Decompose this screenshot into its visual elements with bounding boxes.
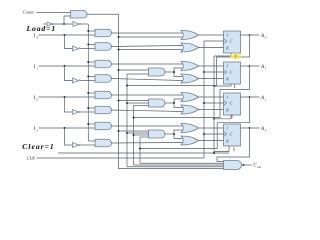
wire A2 feedback descent (140, 97, 250, 149)
junction chain bracket stage1 (173, 71, 175, 73)
wire inverter out stage3 (80, 144, 95, 146)
svg-text:0: 0 (36, 35, 38, 39)
wire count-enable vertical (119, 14, 224, 168)
node I3 input label (33, 127, 39, 133)
wire A2 to chain3 (140, 136, 149, 138)
svg-text:J: J (226, 64, 228, 69)
svg-text:out: out (257, 165, 261, 169)
wire I1 line (39, 65, 96, 67)
wire A0 to chain2 (127, 102, 149, 104)
AND gate carry (C_out) (224, 161, 242, 170)
wire CLK to FF3 C (204, 133, 224, 135)
junction Load tap stage2 (87, 107, 89, 109)
junction A0 chain2 (126, 102, 128, 104)
OR gate J stage2 (181, 93, 199, 102)
wire I0 to inverter (65, 35, 73, 49)
OR gate K stage1 (181, 74, 199, 83)
wire CLK line (37, 157, 205, 159)
wire chain bracket stage1 (174, 68, 183, 77)
wire A1 feedback descent (134, 66, 250, 118)
junction I3 branch (64, 127, 66, 129)
svg-text:J: J (226, 95, 228, 100)
svg-text:Load=1: Load=1 (26, 24, 57, 33)
wire CE feed chain2 (119, 100, 149, 102)
AND gate K-load stage0 (95, 43, 112, 51)
wire Load tap stage2 (88, 92, 95, 94)
junction A3 output (249, 127, 251, 129)
wire A0 to chain3 (127, 132, 149, 134)
wire OR-J out stage2 (199, 96, 224, 98)
wire A1 to carry AND (134, 164, 224, 166)
svg-text:2: 2 (265, 97, 267, 101)
wire CE feed chain1 (119, 69, 149, 71)
svg-text:3: 3 (36, 128, 38, 132)
AND gate G1 (Count enable) (71, 11, 88, 19)
wire A1 output (241, 65, 260, 67)
junction A2 feedback (139, 148, 141, 150)
AND gate J-load stage3 (95, 122, 112, 130)
junction I1 branch (64, 65, 66, 67)
wire Load distribution vertical (87, 24, 89, 141)
node I1 input label (33, 65, 39, 71)
inverter U6 (I3') (73, 143, 81, 148)
svg-text:1: 1 (265, 66, 267, 70)
wire CLK to FF1 C (204, 71, 224, 73)
red mark under FF2 (231, 115, 233, 119)
wire Clear stub FF1 (214, 84, 231, 86)
inverter U1 (Load) (47, 22, 53, 26)
wire Load tap stage3 (88, 123, 95, 125)
svg-text:3: 3 (265, 128, 267, 132)
svg-text:K: K (225, 107, 229, 112)
junction A2 output (249, 96, 251, 98)
wire inverter out stage1 (80, 80, 95, 82)
OR gate J stage3 (181, 124, 199, 133)
junction Load tap stage1 (87, 76, 89, 78)
wire C_out (242, 164, 252, 166)
AND gate chain stage2 (149, 99, 166, 107)
wire J-AND out stage2 (112, 94, 183, 96)
svg-text:J: J (226, 33, 228, 38)
wire G1 output to CE vertical (87, 13, 119, 15)
svg-text:0: 0 (265, 35, 267, 39)
junction Load tap stage2 (87, 92, 89, 94)
OR gate K stage2 (181, 105, 199, 114)
wire CE feed chain3 (119, 130, 149, 132)
node Clear=1 label (22, 142, 54, 151)
wire I3 to inverter (65, 128, 73, 145)
AND gate chain stage3 (149, 130, 166, 138)
wire between inverters (53, 23, 73, 25)
junction I0 branch (64, 34, 66, 36)
junction Load tap stage1 (87, 61, 89, 63)
node I0 input label (33, 34, 39, 40)
junction I2 branch (64, 96, 66, 98)
AND gate K-load stage2 (95, 106, 112, 114)
wire OR-J out stage1 (199, 65, 224, 67)
junction CE J0 (118, 36, 120, 38)
wire Load tap stage2 (88, 107, 95, 109)
wire OR-K out stage2 (199, 109, 224, 111)
AND gate chain stage1 (149, 68, 166, 76)
inverter U3 (I0') (73, 46, 81, 51)
svg-text:I: I (33, 96, 36, 101)
wire K-AND out stage0 (112, 46, 183, 47)
wire Clear line (58, 152, 229, 154)
OR gate J stage0 (181, 31, 199, 40)
wire Clear stub FF0 (214, 53, 231, 56)
wire Load tap stage1 (88, 76, 95, 78)
wire CLK to FF0 C (204, 41, 224, 158)
wire Load tap stage0 (88, 44, 95, 46)
svg-text:K: K (225, 76, 229, 81)
svg-text:K: K (225, 138, 229, 143)
wire chain out stage2 (165, 102, 174, 104)
svg-text:C: C (230, 39, 233, 44)
inverter U5 (I2') (73, 110, 81, 115)
junction A0 output (249, 34, 251, 36)
wire K-AND out stage3 (112, 142, 183, 145)
wire chain bracket stage2 (174, 99, 183, 108)
node C_out label (253, 164, 261, 169)
AND gate J-load stage1 (95, 60, 112, 68)
wire Clear stub FF3 (214, 146, 229, 152)
AND gate K-load stage3 (95, 139, 112, 147)
junction A1 chain3 (133, 134, 135, 136)
wire inverter out stage2 (80, 111, 95, 113)
wire I3 line (39, 127, 96, 129)
inverter U4 (I1') (73, 78, 81, 83)
wire A1 feedback left vertical (133, 106, 135, 166)
wire I2 line (39, 96, 96, 98)
node A3 output label (260, 127, 267, 133)
wire A3 feedback (217, 128, 250, 162)
junction A0 chain3 (126, 132, 128, 134)
red mark under FF1 (234, 85, 236, 89)
svg-text:C: C (230, 70, 233, 75)
junction CE K0 (118, 49, 120, 51)
wire chain bracket stage3 (174, 130, 183, 139)
wire K-AND out stage2 (112, 110, 183, 112)
OR gate J stage1 (181, 62, 199, 71)
svg-text:1: 1 (36, 66, 38, 70)
svg-text:CLK: CLK (27, 156, 36, 161)
wire Clear stub FF2 (214, 115, 231, 119)
JK flip-flop U8 (FF1) (224, 62, 241, 84)
wire G1 lower input (64, 16, 71, 24)
svg-text:I: I (33, 34, 36, 39)
node CLK label (27, 156, 36, 161)
wire A0 feedback descent (127, 35, 250, 86)
AND gate J-load stage0 (95, 29, 112, 37)
junction carry output (243, 164, 245, 166)
svg-text:2: 2 (36, 97, 38, 101)
wire U2 output to load vertical (81, 23, 89, 25)
node A1 output label (260, 65, 267, 71)
junction CE chain1 (118, 69, 120, 71)
junction CLK FF1 (203, 71, 205, 73)
wire I1 to inverter (65, 66, 73, 81)
junction Clear stub FF2 (213, 118, 215, 120)
wire OR-K out stage0 (199, 47, 224, 49)
wire A1 to chain3 (134, 134, 149, 136)
svg-text:Count: Count (23, 10, 35, 15)
junction Load tap stage3 (87, 123, 89, 125)
inverter U2 (Load) (73, 22, 81, 27)
wire I0 line (39, 34, 96, 36)
junction chain bracket stage3 (173, 133, 175, 135)
wire A2 output (241, 96, 260, 98)
wire A0 to chain1 (127, 73, 149, 75)
junction Clear vertical bottom (213, 152, 215, 154)
junction Load tap stage0 (87, 44, 89, 46)
node A0 output label (260, 34, 267, 40)
junction CLK FF3 (203, 133, 205, 135)
wire Load tap stage1 (88, 61, 95, 63)
wire CE feed K0 (119, 49, 183, 51)
wire Count to G1 (37, 12, 71, 14)
svg-text:I: I (33, 65, 36, 70)
wire I2 to inverter (65, 97, 73, 112)
OR gate K stage0 (181, 43, 199, 52)
node A2 output label (260, 96, 267, 102)
wire CLK to FF2 C (204, 102, 224, 104)
JK flip-flop U9 (FF2) (224, 93, 241, 115)
svg-text:C: C (230, 101, 233, 106)
wire OR-K out stage1 (199, 78, 224, 80)
svg-text:K: K (225, 45, 229, 50)
node I2 input label (33, 96, 39, 102)
svg-text:I: I (33, 127, 36, 132)
node Count input (23, 10, 35, 15)
wire A0 feedback left vertical (126, 74, 128, 167)
wire OR-J out stage0 (199, 34, 224, 36)
junction CE chain3 (118, 130, 120, 132)
wire Load tap stage3 (88, 140, 95, 142)
wire A2 feedback left vertical (139, 137, 141, 163)
OR gate K stage3 (181, 136, 199, 145)
wire J-AND out stage3 (112, 125, 183, 127)
junction A1 output (249, 65, 251, 67)
wire A2 to carry AND (140, 162, 224, 164)
node Load=1 label (26, 24, 57, 33)
junction A0 feedback (126, 85, 128, 87)
svg-text:C: C (230, 132, 233, 137)
wire Load input (43, 23, 47, 25)
wire OR-K out stage3 (199, 140, 224, 142)
wire inverter out stage0 (80, 48, 95, 50)
red mark under FF3 (233, 148, 235, 152)
junction Clear stub FF1 (213, 85, 215, 87)
wire J-AND out stage0 (112, 32, 183, 34)
wire Clear vertical (213, 56, 215, 153)
wire Load tap stage0 (88, 30, 95, 32)
wire A1 to chain2 (134, 105, 149, 107)
AND gate J-load stage2 (95, 91, 112, 99)
yellow highlight under FF0 (230, 53, 242, 59)
wire chain out stage3 (165, 133, 174, 135)
wire K-AND out stage1 (112, 79, 183, 81)
wire A0 output (241, 34, 260, 36)
svg-text:Clear=1: Clear=1 (22, 142, 54, 151)
wire OR-J out stage3 (199, 127, 224, 129)
wire chain out stage1 (165, 71, 174, 73)
junction Load tap stage0 (87, 30, 89, 32)
wire A3 output (241, 127, 260, 129)
wire A0 to carry AND (127, 166, 224, 168)
wire CE feed J0 (119, 36, 183, 38)
JK flip-flop U7 (FF0) (224, 31, 241, 53)
junction on Load line (63, 23, 65, 25)
svg-text:J: J (226, 126, 228, 131)
JK flip-flop U10 (FF3) (224, 124, 241, 146)
junction CE chain2 (118, 100, 120, 102)
junction CLK FF2 (203, 102, 205, 104)
junction chain bracket stage2 (173, 102, 175, 104)
junction A1 feedback (133, 117, 135, 119)
AND gate K-load stage1 (95, 75, 112, 83)
wire J-AND out stage1 (112, 63, 183, 65)
